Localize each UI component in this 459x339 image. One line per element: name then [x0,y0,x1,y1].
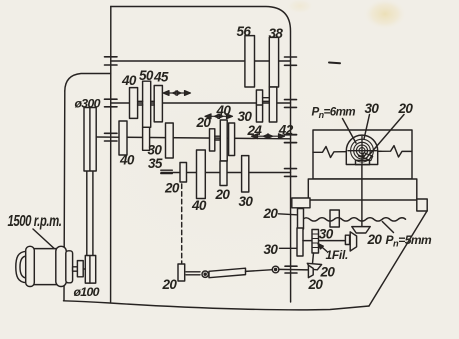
column outline top corner [65,74,111,92]
gear 40 on shaft IV [197,150,206,199]
shaft end cap [345,235,349,244]
arrow slider cluster 20-40-30 [205,114,233,119]
gear 20 bottom of dashed line [178,264,185,281]
vertical drive shaft to dial [361,165,363,227]
svg-text:1Fil.: 1Fil. [326,248,349,262]
svg-text:20: 20 [308,277,324,292]
belt lines [87,171,93,256]
svg-text:30: 30 [365,101,380,116]
gear 35 on shaft III [166,123,174,158]
gear 56 [245,36,255,87]
screw nut hatched [362,153,373,161]
feed shaft to knee [279,268,309,271]
svg-text:20: 20 [215,187,231,202]
saddle box [308,179,417,200]
svg-text:38: 38 [269,26,284,41]
svg-text:ø100: ø100 [74,285,100,299]
worm 1Fil [312,230,319,254]
svg-text:20: 20 [196,115,212,130]
worm dial housing dome [346,135,377,164]
hanging bearing block [330,210,339,227]
gear 45 cluster shaft II [154,86,162,122]
motor shaft [73,267,78,271]
bevel gear pair center [352,227,370,233]
svg-text:20: 20 [398,101,414,116]
gear 20 cluster shaft III [210,129,215,151]
gear 20 on leadscrew [298,209,304,230]
gear 38 [269,37,278,87]
sleeve 40-50-45 cluster [138,101,155,105]
housing foot [356,160,370,164]
svg-text:Pn=5mm: Pn=5mm [386,233,433,249]
gear 30 on shaft IV [242,156,249,192]
knee diagonal edge [369,211,427,306]
bearing shaft IV right wall [285,169,297,177]
sleeve 30-42 cluster [263,98,270,102]
arrow slider cluster 24-42 [252,134,285,139]
arrow slider cluster 40-50-45 [163,91,191,96]
svg-text:20: 20 [164,180,180,195]
bevel gear pair lower [307,263,321,270]
svg-text:56: 56 [237,24,252,39]
motor ring left [26,246,35,286]
shaft II [111,102,291,104]
svg-text:35: 35 [148,156,163,171]
motor ring right [56,246,67,286]
svg-text:ø300: ø300 [75,96,101,110]
gear 42 [269,87,277,122]
svg-text:30: 30 [238,109,253,124]
svg-text:40: 40 [191,198,207,213]
bearing shaft II right wall [285,100,297,108]
feed shaft link [246,270,273,272]
svg-text:40: 40 [216,103,232,118]
svg-text:45: 45 [153,70,169,85]
svg-text:30: 30 [239,194,254,209]
stray mark right of wall [329,62,340,65]
shaft III [97,137,291,139]
gear 30 cluster shaft III [229,123,235,156]
universal joint right [272,266,279,273]
shaft I [111,60,291,62]
leader 20 knee [279,214,297,215]
svg-text:1500 r.p.m.: 1500 r.p.m. [8,213,62,230]
wall crossing marks feed shaft [285,266,297,273]
leader Pn=5mm [382,222,393,233]
knee left box [292,198,310,208]
headstock top and right wall [111,7,291,303]
telescopic rod [209,268,246,278]
feed shaft spline marks [186,272,200,275]
shaft IV [161,172,291,174]
svg-text:20: 20 [367,232,383,247]
clutch marks shaft IV [161,170,173,173]
bearing shaft III right wall [285,135,297,143]
motor end cap [66,251,73,283]
gear 40 cluster shaft III [220,120,227,161]
table mid line with break zigzags [313,146,412,158]
leader 30 knee [280,247,297,249]
svg-text:30: 30 [319,226,334,241]
motor cap inner arc [20,256,26,278]
headstock left wall [110,7,112,303]
svg-text:24: 24 [247,123,263,138]
bearing shaft II left wall [105,99,118,107]
svg-text:30: 30 [264,242,279,257]
gear 20 on shaft IV [220,161,227,186]
sleeve 20-40-30 cluster [215,136,221,140]
motor coupling [77,261,83,277]
svg-text:20: 20 [162,277,178,292]
bearing shaft I right wall [285,57,297,65]
knee right tab [417,199,427,211]
table box [313,130,412,179]
gear 30 on shaft II [256,90,262,122]
universal joint left [202,271,208,277]
motor body [33,249,58,285]
motor leader line [33,229,64,258]
gear 40 cluster shaft II [130,88,138,119]
bearing shaft I left wall [105,57,118,65]
dial circles [351,136,374,164]
machine base line [64,301,370,310]
svg-text:20: 20 [263,206,279,221]
gear 30 on worm shaft [297,228,303,256]
gear 50 cluster shaft II [143,81,151,127]
svg-text:50: 50 [139,68,154,83]
dashed chain line [181,184,183,263]
column left edge [63,91,66,301]
worm shaft lower [313,253,314,264]
gear 40 on shaft III [119,121,127,155]
leader 1Fil arrow [318,244,327,252]
paper stain top right [363,0,407,30]
motor left cap [16,251,26,282]
gear 30 on shaft III [143,127,150,150]
leader 30 dial [364,115,370,140]
pulley 100 [85,256,95,284]
svg-text:42: 42 [278,123,294,138]
svg-text:40: 40 [121,73,137,88]
svg-text:40: 40 [119,153,135,168]
diameter line through dial [348,150,376,152]
leadscrew wavy line Pn=5mm [303,218,406,221]
gear 20 left end shaft IV [180,163,187,183]
svg-text:Pn=6mm: Pn=6mm [312,105,356,120]
leader Pn=6mm [343,119,357,144]
pulley 300 [84,108,96,172]
horizontal worm shaft [303,240,345,242]
bearing shaft III left wall [105,133,118,141]
leader 20 nut [370,115,404,155]
